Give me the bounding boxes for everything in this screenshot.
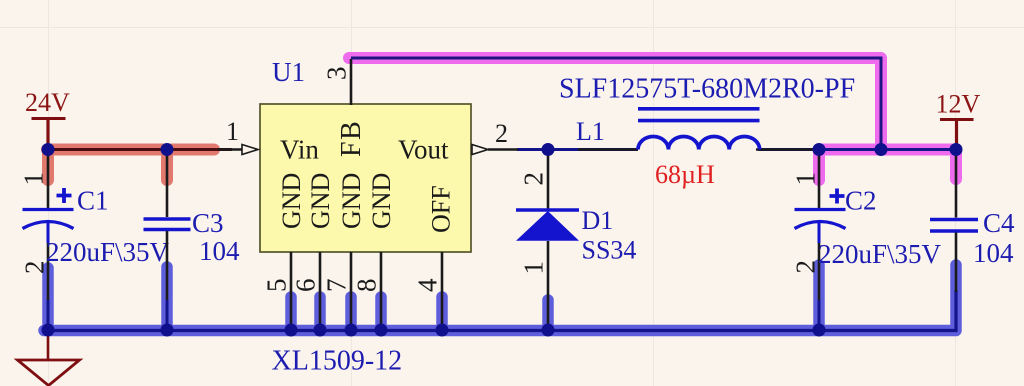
svg-text:2: 2: [519, 172, 549, 186]
svg-text:3: 3: [322, 67, 352, 81]
pin number 5: [262, 279, 292, 293]
svg-text:5: 5: [262, 279, 292, 293]
wire VIN net (navy core under red): [48, 148, 232, 151]
diode D1: [516, 152, 636, 330]
wire highlight FB trace pin3 to output: [349, 58, 881, 150]
wire highlight C2 to C4 segment: [819, 144, 956, 156]
wire highlight stub to C1 pin 1: [42, 152, 54, 180]
junction GND bus / pin 6: [314, 324, 327, 337]
svg-text:1: 1: [19, 172, 49, 186]
svg-text:6: 6: [291, 279, 321, 293]
svg-text:Vin: Vin: [280, 135, 319, 165]
svg-text:C3: C3: [192, 208, 224, 238]
svg-text:104: 104: [973, 238, 1014, 268]
svg-text:C1: C1: [77, 186, 109, 216]
pin number 7: [322, 279, 352, 293]
junction 24V/C1 node: [42, 143, 55, 156]
pin number 4: [413, 278, 443, 292]
junction GND bus / C2: [813, 324, 826, 337]
wire 12V net segment B (L1 to C4/12V): [758, 148, 956, 151]
svg-text:FB: FB: [336, 120, 367, 157]
svg-text:24V: 24V: [25, 88, 70, 117]
wire highlight stub pin 6: [314, 297, 326, 330]
svg-text:4: 4: [413, 278, 443, 292]
junction GND bus / pin 8: [375, 324, 388, 337]
wire highlight stub pin 7: [345, 297, 357, 330]
wire highlight stub pin 5: [285, 297, 297, 330]
junction GND bus / pin 4: [436, 324, 449, 337]
wire highlight stub C2 pin 2: [813, 265, 825, 330]
junction C3 tap: [161, 143, 174, 156]
svg-text:2: 2: [495, 119, 508, 148]
junction GND bus / C1: [42, 324, 55, 337]
junction Vout/D1 node: [542, 143, 555, 156]
wire highlight stub to C4: [950, 152, 962, 179]
svg-text:GND: GND: [367, 173, 396, 229]
svg-text:104: 104: [199, 236, 240, 266]
svg-text:OFF: OFF: [427, 185, 456, 233]
pin number 8: [352, 279, 382, 293]
wire highlight 24V node to pin 1: [47, 144, 214, 156]
pin 1 (Vin) with arrow: [218, 117, 258, 155]
junction 12V/C4 node: [950, 143, 963, 156]
junction FB feedback tap: [875, 143, 888, 156]
capacitor C4: [930, 152, 1015, 292]
pin 2 black lead: [488, 148, 518, 151]
svg-text:220uF\35V: 220uF\35V: [46, 237, 170, 267]
svg-text:8: 8: [352, 279, 382, 293]
pin 4 (OFF) wire: [441, 252, 444, 330]
pin 7 (GND) wire: [350, 252, 353, 330]
pin 6 (GND) wire: [319, 252, 322, 330]
wire FB trace (navy core under magenta): [351, 58, 881, 150]
svg-text:1: 1: [519, 261, 549, 275]
capacitor C2: [791, 152, 942, 330]
regulator U1: [260, 57, 471, 252]
svg-text:GND: GND: [337, 173, 366, 229]
svg-text:GND: GND: [277, 173, 306, 229]
wire GND bus (navy core): [44, 290, 956, 331]
wire highlight GND bus: [44, 265, 956, 331]
pin 3 (FB): [322, 59, 352, 105]
junction GND bus / C3: [161, 324, 174, 337]
svg-text:2: 2: [20, 261, 50, 275]
pin 5 (GND) wire: [290, 252, 293, 330]
svg-text:SLF12575T-680M2R0-PF: SLF12575T-680M2R0-PF: [559, 74, 855, 105]
svg-text:L1: L1: [576, 117, 605, 146]
power port 24V: [25, 88, 70, 149]
svg-text:1: 1: [226, 117, 239, 146]
svg-text:C2: C2: [845, 186, 877, 216]
svg-text:C4: C4: [983, 208, 1015, 238]
svg-text:7: 7: [322, 279, 352, 293]
junction GND bus / pin 5: [285, 324, 298, 337]
power port 12V: [936, 90, 981, 150]
svg-text:1: 1: [791, 172, 821, 186]
svg-text:SS34: SS34: [582, 236, 637, 265]
net highlight VIN (red): [47, 150, 214, 181]
svg-text:220uF\35V: 220uF\35V: [818, 239, 942, 269]
inductor L1: [559, 74, 855, 190]
net highlight GND (blue): [44, 265, 956, 331]
svg-text:U1: U1: [272, 57, 305, 87]
svg-text:GND: GND: [306, 173, 335, 229]
wire highlight stub D1 pin 1: [542, 300, 554, 330]
wire highlight stub pin 4: [436, 297, 448, 330]
ground symbol: [18, 332, 80, 386]
pin 8 (GND) wire: [380, 252, 383, 330]
pin 2 (Vout) with arrow: [472, 119, 508, 155]
junction GND bus / D1: [542, 324, 555, 337]
net highlight 12V/FB (magenta): [349, 58, 956, 180]
svg-text:XL1509-12: XL1509-12: [272, 346, 403, 377]
pin number 6: [291, 279, 321, 293]
capacitor C3: [144, 152, 241, 330]
svg-text:Vout: Vout: [398, 135, 449, 165]
junction C2 tap: [813, 143, 826, 156]
capacitor C1: [19, 152, 170, 330]
wire highlight stub to C2 pin 1: [813, 152, 825, 180]
wire VOUT net segment A (pin2 to L1): [517, 148, 638, 151]
wire highlight stub pin 8: [375, 297, 387, 330]
svg-text:68µH: 68µH: [655, 160, 715, 189]
wire highlight stub C3 pin 2: [161, 267, 173, 330]
svg-text:12V: 12V: [936, 90, 981, 119]
svg-text:2: 2: [791, 260, 821, 274]
wire highlight stub C1 pin 2: [42, 268, 54, 330]
wire highlight stub to C3: [161, 152, 173, 180]
svg-text:D1: D1: [582, 206, 614, 235]
junction GND bus / pin 7: [345, 324, 358, 337]
